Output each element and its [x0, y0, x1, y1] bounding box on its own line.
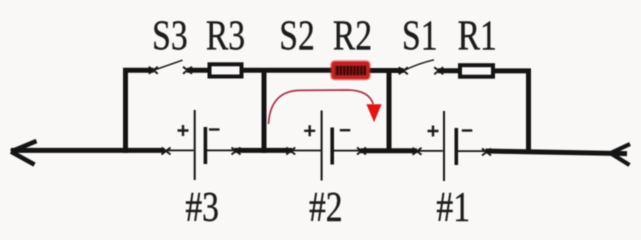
svg-text:#2: #2	[309, 185, 343, 231]
svg-text:S3: S3	[152, 13, 187, 59]
svg-text:S2: S2	[279, 13, 314, 59]
svg-text:R1: R1	[458, 13, 497, 59]
svg-text:R2: R2	[333, 13, 372, 59]
svg-text:S1: S1	[402, 13, 437, 59]
svg-text:R3: R3	[206, 13, 245, 59]
svg-text:#3: #3	[185, 185, 219, 231]
svg-text:#1: #1	[436, 185, 470, 231]
